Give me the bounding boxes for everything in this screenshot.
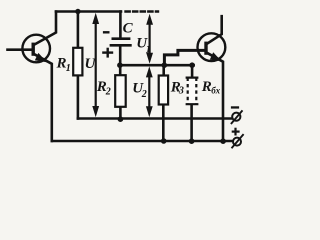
wire R2 bottom lead	[119, 107, 122, 119]
wire bottom rail (+)	[52, 140, 233, 143]
junction dot bottom rail / R3	[161, 138, 167, 144]
terminal plus	[232, 128, 244, 149]
wire VT1 collector	[35, 12, 57, 45]
wire middle rail	[120, 64, 194, 67]
wire R1 top lead	[77, 12, 80, 49]
wire capacitor C top lead	[119, 12, 122, 38]
wire top rail	[56, 10, 121, 13]
wire VT1 base lead	[8, 48, 32, 51]
wire R1 bottom lead	[77, 75, 80, 118]
wire VT2 base path	[164, 50, 204, 65]
svg-text:2: 2	[141, 89, 147, 100]
svg-text:C: C	[123, 21, 134, 37]
wire R6x top lead	[191, 65, 194, 77]
junction dot middle rail / C-R2	[117, 62, 123, 68]
voltage arrow U2	[146, 66, 153, 117]
terminal minus	[231, 106, 243, 124]
wire R3 bottom lead	[162, 105, 165, 142]
junction dot bottom rail / R6x	[189, 138, 195, 144]
junction dot bottom rail / VT2 emitter	[220, 138, 226, 144]
wire output rail (-)	[78, 117, 233, 120]
resistor R6x (dashed sides)	[186, 78, 199, 105]
resistor R2	[115, 75, 126, 107]
transistor VT1	[22, 35, 50, 63]
capacitor C	[110, 39, 132, 46]
wire R6x bottom lead	[190, 104, 193, 141]
wire dashed top extension	[126, 10, 159, 12]
svg-text:3: 3	[178, 86, 184, 97]
junction dot top rail / R1	[75, 9, 80, 14]
junction dot middle rail / R3-base	[162, 62, 168, 68]
resistor R3	[159, 76, 168, 105]
svg-text:2: 2	[105, 87, 111, 98]
svg-text:U: U	[85, 56, 97, 72]
wire R3 top lead	[162, 65, 165, 75]
capacitor C plus mark	[102, 48, 113, 58]
svg-text:1: 1	[146, 44, 151, 55]
transistor VT2	[198, 33, 226, 61]
voltage arrow U1	[146, 14, 153, 64]
capacitor C minus mark	[103, 31, 110, 33]
wire VT2 collector	[208, 16, 222, 43]
junction dot output rail / R2	[118, 116, 124, 122]
junction dot middle rail / R6x	[189, 62, 195, 68]
svg-text:R: R	[201, 79, 212, 95]
svg-text:1: 1	[66, 63, 71, 74]
wire VT1 emitter down to bottom rail	[35, 54, 52, 141]
wire capacitor C bottom lead / R2 top lead	[119, 47, 122, 76]
voltage arrow U	[92, 13, 99, 117]
resistor R1	[73, 48, 82, 76]
wire VT2 emitter down to bottom rail	[208, 53, 223, 141]
svg-text:бх: бх	[211, 85, 220, 95]
